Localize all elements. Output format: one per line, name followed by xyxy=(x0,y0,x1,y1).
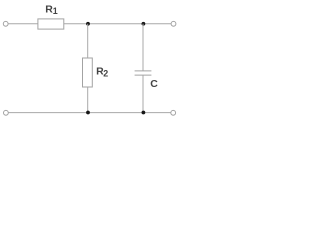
svg-text:2: 2 xyxy=(103,69,108,79)
terminal (bottom-left) xyxy=(4,110,9,115)
wire (R1 right lead across top to output terminal) xyxy=(64,23,171,25)
node junction at R2 bottom xyxy=(86,111,90,115)
terminal (bottom-right) xyxy=(171,110,176,115)
terminal (input, top-left) xyxy=(3,21,8,26)
svg-text:1: 1 xyxy=(53,6,58,16)
node junction at C bottom xyxy=(142,111,146,115)
capacitor C top plate xyxy=(135,70,152,72)
wire (C bottom plate to bottom rail) xyxy=(142,75,144,113)
wire (input terminal to R1 left lead) xyxy=(8,23,37,25)
terminal (output, top-right) xyxy=(171,21,176,26)
resistor R1 xyxy=(38,19,64,29)
capacitor C bottom plate xyxy=(135,74,152,76)
wire (top node down to C top plate) xyxy=(142,24,144,71)
node junction at R2 top xyxy=(86,22,90,26)
wire (top node down to R2) xyxy=(87,24,89,58)
node junction at C top xyxy=(142,22,146,26)
resistor R2 xyxy=(83,58,93,87)
svg-text:C: C xyxy=(150,78,158,90)
wire (bottom rail) xyxy=(8,112,170,114)
wire (R2 bottom to bottom rail) xyxy=(87,87,89,113)
